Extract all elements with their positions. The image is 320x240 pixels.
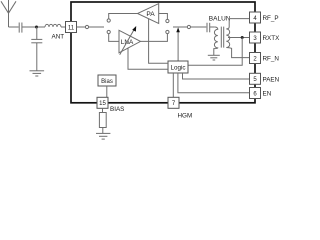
pin 11 box [66, 22, 77, 33]
wire resistor to ground [102, 128, 104, 134]
svg-text:ANT: ANT [52, 34, 65, 41]
svg-text:Bias: Bias [101, 79, 113, 85]
svg-text:RXTX: RXTX [263, 35, 281, 42]
primary ground [208, 55, 220, 60]
wire Logic to pin 6 EN [178, 73, 250, 93]
node RXTX junction dot [241, 36, 244, 39]
svg-text:LNA: LNA [121, 39, 134, 46]
wire S1 bottom contact to LNA input [109, 34, 119, 42]
wire L1 to pin 11 [61, 26, 66, 28]
pin 7 box [168, 97, 179, 108]
wire Logic to PA control [149, 19, 168, 64]
bias block [98, 75, 116, 86]
capacitor C2 (shunt) [31, 39, 42, 42]
node junction dot [35, 26, 38, 29]
switch S2 contact from PA (circle) [166, 19, 169, 22]
antenna [1, 0, 16, 27]
wire pin 11 to switch pole circle [77, 26, 86, 28]
wire Logic to pin 5 PAEN [183, 73, 250, 79]
switch S1 contact to LNA (circle) [107, 30, 110, 33]
switch S2 pole contact circle [187, 25, 190, 28]
svg-text:EN: EN [263, 91, 272, 98]
wire node to C2 [36, 27, 38, 39]
wire pin 15 to resistor [102, 108, 104, 112]
wire S2 pole to C3 [191, 26, 207, 28]
capacitor C1 (series) [19, 23, 22, 33]
svg-text:11: 11 [68, 25, 75, 31]
wire PA output to S1 top contact [109, 14, 138, 19]
svg-text:RF_P: RF_P [263, 15, 279, 22]
wire RXTX node to Logic [188, 38, 242, 66]
switch S2 contact from LNA (circle) [166, 30, 169, 33]
capacitor C3 (series) [207, 23, 210, 33]
switch S2 control arrow from Logic [176, 27, 180, 61]
inductor L1 [45, 24, 61, 27]
ground [96, 133, 110, 139]
logic block [168, 61, 188, 73]
pin 5 box [250, 73, 261, 84]
op-amp PA U1 [138, 4, 159, 24]
svg-text:15: 15 [99, 101, 106, 107]
resistor R1 [99, 113, 106, 128]
balun core [221, 27, 223, 48]
switch S1 pole contact circle [85, 25, 88, 28]
pin 2 box [250, 53, 261, 64]
pin 3 box [250, 32, 261, 43]
svg-text:PA: PA [146, 11, 155, 18]
wire C2 to ground [36, 43, 38, 71]
pin 6 box [250, 88, 261, 99]
IC block outline [71, 2, 255, 103]
switch S1 contact to PA (circle) [107, 19, 110, 22]
wire Bias to pin 15 [106, 86, 108, 97]
wire secondary center tap to pin 3 [228, 37, 250, 39]
LNA gain arrow [120, 26, 137, 55]
svg-text:BALUN: BALUN [209, 15, 231, 22]
balun secondary winding [226, 19, 249, 58]
wire C1 to L1 [22, 26, 45, 28]
svg-text:Logic: Logic [170, 64, 185, 71]
switch S2 blade [173, 26, 187, 28]
svg-text:PAEN: PAEN [263, 76, 280, 83]
switch S1 blade [89, 26, 104, 28]
wire Logic to LNA control [128, 48, 168, 69]
svg-text:HGM: HGM [178, 113, 193, 120]
wire antenna to C1 [9, 26, 19, 28]
wire Logic to pin 7 HGM [172, 73, 174, 97]
pin 15 box [97, 97, 108, 108]
ground [30, 71, 45, 76]
wire LNA output to S2 bottom contact [141, 34, 168, 42]
balun transformer primary winding [214, 27, 218, 55]
wire PA input from right [159, 14, 168, 20]
wire C3 to balun [210, 26, 215, 28]
op-amp LNA U2 [119, 30, 141, 53]
pin 4 box [250, 12, 261, 23]
svg-text:BIAS: BIAS [110, 106, 124, 113]
wire secondary top to pin 4 [229, 18, 249, 20]
svg-text:RF_N: RF_N [263, 56, 280, 63]
